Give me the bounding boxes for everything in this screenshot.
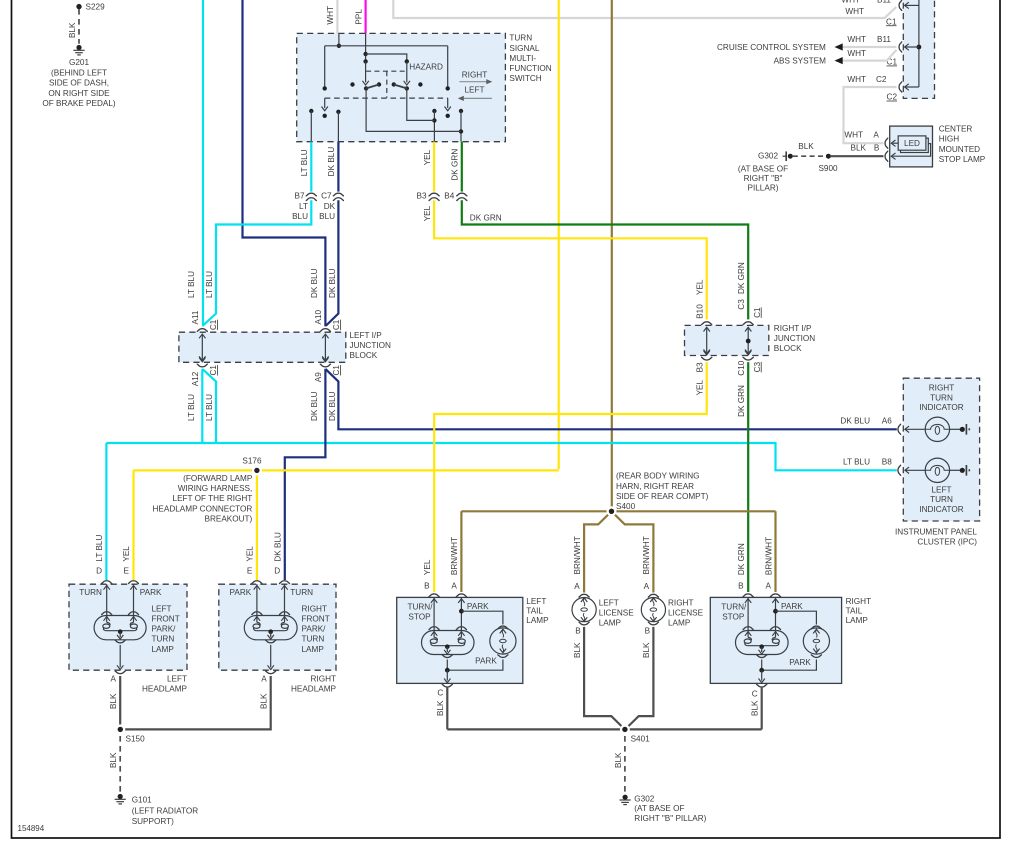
label A BRN/WHT right tail: [764, 537, 773, 590]
svg-text:ABS SYSTEM: ABS SYSTEM: [774, 57, 827, 66]
svg-text:(BEHIND LEFT: (BEHIND LEFT: [51, 68, 107, 77]
svg-text:JUNCTION: JUNCTION: [350, 341, 391, 350]
wire WHT to cruise control system: [843, 46, 897, 48]
svg-text:YEL: YEL: [696, 379, 705, 395]
svg-text:CLUSTER (IPC): CLUSTER (IPC): [917, 538, 977, 547]
left tail lamp box: [397, 597, 523, 683]
svg-text:LAMP: LAMP: [152, 645, 175, 654]
svg-text:LAMP: LAMP: [668, 618, 691, 627]
wire LT BLU down to left front lamp D: [105, 443, 107, 580]
svg-text:RIGHT I/P: RIGHT I/P: [774, 324, 812, 333]
svg-text:RIGHT: RIGHT: [311, 675, 336, 684]
svg-text:B10: B10: [696, 304, 705, 319]
wire PPL into switch: [365, 0, 367, 34]
label HAZARD: [409, 63, 443, 72]
svg-text:TURN/: TURN/: [721, 603, 747, 612]
svg-text:BLK: BLK: [260, 693, 269, 709]
svg-text:LAMP: LAMP: [599, 618, 622, 627]
svg-text:SUPPORT): SUPPORT): [132, 817, 174, 826]
label E YEL right: [246, 546, 255, 576]
instrument panel cluster box: [903, 378, 979, 521]
svg-text:RIGHT: RIGHT: [302, 604, 327, 613]
connector B3: [416, 192, 439, 201]
left I/P junction block (upper right): [903, 0, 934, 98]
svg-text:RIGHT: RIGHT: [929, 384, 954, 393]
wire YEL from top to S176 line: [558, 0, 560, 469]
label D LT BLU: [95, 535, 104, 576]
svg-text:RIGHT "B" PILLAR): RIGHT "B" PILLAR): [634, 814, 706, 823]
svg-text:LT: LT: [299, 202, 308, 211]
label A right headlamp: [261, 675, 267, 684]
svg-text:CENTER: CENTER: [939, 124, 973, 133]
svg-text:B: B: [424, 581, 430, 590]
svg-text:HEADLAMP: HEADLAMP: [291, 685, 337, 694]
svg-text:B8: B8: [882, 457, 892, 466]
wire LT BLU A12 straight to horizontal: [201, 369, 203, 443]
ground G101: [115, 794, 126, 804]
svg-text:A: A: [873, 131, 879, 140]
label BLK: [68, 22, 77, 38]
svg-text:C1: C1: [886, 17, 897, 26]
label DK BLU A6: [840, 416, 892, 425]
note forward lamp wiring harness: [153, 474, 253, 524]
svg-text:G201: G201: [69, 58, 89, 67]
label RIGHT FRONT PARK/TURN LAMP: [302, 604, 330, 653]
svg-text:RIGHT "B": RIGHT "B": [744, 174, 783, 183]
wire BLK S229 to G201 (dashed): [78, 9, 80, 44]
svg-text:C7: C7: [321, 192, 332, 201]
svg-text:STOP LAMP: STOP LAMP: [939, 155, 986, 164]
svg-text:HEADLAMP: HEADLAMP: [142, 685, 188, 694]
switch contacts and blades: [350, 82, 422, 90]
label LT BLU below B7: [292, 202, 308, 221]
svg-text:LEFT: LEFT: [464, 85, 484, 94]
svg-text:BREAKOUT): BREAKOUT): [205, 515, 253, 524]
connector B3 bottom: [696, 351, 713, 396]
label G302 location upper: [738, 152, 788, 193]
svg-text:DK BLU: DK BLU: [328, 391, 337, 421]
svg-text:TURN: TURN: [79, 588, 102, 597]
right front lamp bulb: [244, 584, 297, 673]
label BLK: [436, 700, 445, 716]
svg-text:YEL: YEL: [696, 279, 705, 295]
label WHT: [847, 49, 866, 58]
LED module: [898, 136, 928, 153]
connector C2: [847, 75, 919, 101]
svg-text:B3: B3: [416, 192, 426, 201]
label A left headlamp: [110, 675, 116, 684]
wire LT BLU from top to A11: [202, 0, 204, 326]
svg-text:SWITCH: SWITCH: [509, 74, 541, 83]
svg-text:S400: S400: [616, 502, 636, 511]
splice S150: [115, 724, 145, 743]
wire WHT C2 to stop lamp A: [844, 87, 897, 143]
svg-text:SIGNAL: SIGNAL: [509, 44, 539, 53]
svg-text:C1: C1: [332, 319, 341, 330]
ground G201: [73, 45, 84, 55]
svg-text:B: B: [874, 144, 880, 153]
connector B10 C1: [696, 304, 762, 354]
svg-text:WHT: WHT: [847, 35, 866, 44]
right license lamp: [641, 594, 665, 624]
svg-text:TURN: TURN: [302, 635, 325, 644]
svg-text:PILLAR): PILLAR): [748, 184, 779, 193]
svg-text:DK BLU: DK BLU: [310, 391, 319, 421]
label DK BLU: [327, 147, 336, 177]
wire BLK right front lamp to S150: [120, 676, 271, 729]
connector A9 C1: [314, 358, 341, 383]
svg-text:RIGHT: RIGHT: [462, 71, 487, 80]
svg-text:HAZARD: HAZARD: [409, 63, 443, 72]
svg-text:HEADLAMP CONNECTOR: HEADLAMP CONNECTOR: [153, 504, 253, 513]
wire BRN/WHT from top to S400: [611, 0, 613, 511]
svg-text:TURN/: TURN/: [407, 603, 433, 612]
connector B4: [444, 192, 467, 201]
label DK GRN: [451, 149, 460, 181]
svg-text:DK BLU: DK BLU: [327, 147, 336, 177]
splice S900: [818, 151, 838, 173]
label E YEL: [122, 546, 131, 576]
wire LT BLU A12 jog to horizontal: [202, 369, 216, 443]
svg-text:C2: C2: [876, 75, 887, 84]
wire YEL B3 to right junction block B10: [434, 200, 707, 319]
svg-text:BLK: BLK: [614, 752, 623, 768]
svg-text:LEFT I/P: LEFT I/P: [350, 331, 383, 340]
svg-text:E: E: [247, 566, 253, 575]
svg-text:B4: B4: [444, 192, 454, 201]
svg-text:(LEFT RADIATOR: (LEFT RADIATOR: [132, 807, 199, 816]
wire WHT from top to left I/P junction block C1: [393, 0, 896, 18]
svg-text:BLK: BLK: [798, 142, 814, 151]
wire WHT to ABS system: [843, 50, 897, 61]
label INSTRUMENT PANEL CLUSTER (IPC): [895, 528, 977, 547]
wire YEL S176 to right front lamp E: [256, 470, 258, 580]
svg-text:HIGH: HIGH: [939, 135, 960, 144]
switch internal feed from WHT: [323, 33, 450, 90]
label B YEL left tail: [423, 559, 432, 590]
wire BRN/WHT to left license lamp A: [584, 511, 611, 592]
svg-text:BLK: BLK: [68, 22, 77, 38]
hazard knob linkage (dashed): [366, 71, 405, 98]
svg-text:B: B: [738, 581, 744, 590]
svg-text:154894: 154894: [18, 824, 45, 833]
svg-text:DK GRN: DK GRN: [737, 385, 746, 417]
svg-text:BRN/WHT: BRN/WHT: [642, 536, 651, 574]
svg-text:PARK: PARK: [789, 658, 811, 667]
ground G302 rear: [620, 795, 631, 805]
left license lamp: [572, 594, 596, 624]
label RIGHT HEADLAMP: [291, 675, 337, 694]
svg-text:C1: C1: [209, 365, 218, 376]
svg-text:WIRING HARNESS,: WIRING HARNESS,: [178, 484, 253, 493]
left wiper arrow: [322, 98, 328, 118]
splice S401: [620, 724, 650, 743]
label BLK: [109, 693, 118, 709]
wire YEL switch to connector B3: [433, 142, 435, 192]
label BLK: [642, 642, 651, 658]
svg-text:B3: B3: [696, 362, 705, 372]
svg-text:D: D: [274, 566, 280, 575]
svg-text:RIGHT: RIGHT: [668, 598, 693, 607]
label YEL: [423, 149, 432, 165]
left turn indicator bulb: [898, 458, 969, 482]
label D DK BLU right: [273, 532, 282, 575]
svg-text:A: A: [644, 582, 650, 591]
label cruise control system: [717, 43, 843, 52]
left front lamp bulb: [94, 584, 146, 673]
label BLK: [798, 142, 814, 151]
svg-text:BLK: BLK: [109, 752, 118, 768]
svg-text:MULTI-: MULTI-: [509, 54, 536, 63]
svg-text:LT BLU: LT BLU: [205, 394, 214, 421]
svg-text:S176: S176: [242, 457, 262, 466]
wire YEL S176 horizontal: [134, 469, 559, 471]
label LEFT I/P JUNCTION BLOCK: [350, 331, 391, 360]
splice S229: [74, 2, 105, 12]
wire BLK S900 to stop lamp B: [831, 155, 884, 157]
svg-text:YEL: YEL: [122, 546, 131, 562]
svg-text:SIDE OF DASH,: SIDE OF DASH,: [49, 79, 109, 88]
svg-text:C1: C1: [753, 307, 762, 318]
svg-text:B: B: [575, 627, 581, 636]
terminal arcs left front lamp: [101, 581, 139, 590]
svg-text:DK BLU: DK BLU: [273, 532, 282, 562]
label DK BLU pair above A10: [310, 268, 337, 298]
wire DK BLU A9 straight then left to right front lamp D: [285, 369, 326, 580]
svg-text:A: A: [451, 581, 457, 590]
svg-text:BLK: BLK: [642, 642, 651, 658]
svg-text:JUNCTION: JUNCTION: [774, 334, 815, 343]
label DK BLU below C7: [319, 202, 335, 221]
label RIGHT TURN INDICATOR: [919, 384, 963, 412]
svg-text:LT BLU: LT BLU: [300, 149, 309, 176]
svg-text:A10: A10: [314, 309, 323, 324]
svg-text:C1: C1: [332, 365, 341, 376]
svg-text:LAMP: LAMP: [846, 616, 869, 625]
svg-text:LEFT: LEFT: [152, 604, 172, 613]
svg-text:MOUNTED: MOUNTED: [939, 145, 980, 154]
label DK GRN above C3: [737, 262, 746, 294]
svg-text:FUNCTION: FUNCTION: [509, 64, 551, 73]
svg-text:WHT: WHT: [847, 75, 866, 84]
switch terminal DK GRN: [459, 109, 463, 142]
wire DK GRN switch to connector B4: [461, 142, 463, 192]
svg-text:TAIL: TAIL: [846, 607, 863, 616]
wire DK BLU from top elbow to A10: [243, 0, 326, 326]
wire BLK left front lamp to S150: [119, 676, 121, 729]
svg-text:LICENSE: LICENSE: [668, 608, 704, 617]
svg-text:TURN: TURN: [290, 588, 313, 597]
diagram number 154894: [18, 824, 45, 833]
svg-text:BLK: BLK: [751, 700, 760, 716]
svg-text:D: D: [96, 566, 102, 575]
wire YEL to left front lamp E: [132, 470, 134, 580]
label BLK: [109, 752, 118, 768]
svg-text:LT BLU: LT BLU: [843, 457, 870, 466]
svg-text:BLK: BLK: [109, 693, 118, 709]
label CENTER HIGH MOUNTED STOP LAMP: [939, 124, 986, 164]
svg-text:LEFT: LEFT: [526, 597, 546, 606]
svg-text:CRUISE CONTROL SYSTEM: CRUISE CONTROL SYSTEM: [717, 43, 826, 52]
wire LT BLU B7 to A11: [203, 200, 311, 325]
svg-text:A11: A11: [191, 310, 200, 324]
svg-text:WHT: WHT: [841, 0, 860, 4]
svg-text:G302: G302: [758, 152, 778, 161]
right I/P junction block: [685, 325, 769, 355]
svg-text:BRN/WHT: BRN/WHT: [573, 536, 582, 574]
svg-text:A: A: [261, 675, 267, 684]
svg-text:LT BLU: LT BLU: [95, 535, 104, 562]
svg-text:TURN: TURN: [152, 635, 175, 644]
svg-text:S401: S401: [631, 735, 651, 744]
svg-text:BLK: BLK: [851, 144, 867, 153]
splice S400 note: [616, 472, 709, 512]
connector A12 C1: [191, 358, 218, 387]
svg-text:BLK: BLK: [436, 700, 445, 716]
label BLK: [614, 752, 623, 768]
svg-text:A12: A12: [191, 371, 200, 386]
label RIGHT TAIL LAMP: [846, 597, 871, 625]
wire BLK G302 to S900 (dashed): [793, 155, 825, 157]
svg-text:WHT: WHT: [847, 49, 866, 58]
labels left license lamp: [574, 582, 634, 636]
wire BLK left tail to S401: [446, 687, 448, 730]
svg-text:G302: G302: [634, 795, 654, 804]
svg-text:SIDE OF REAR COMPT): SIDE OF REAR COMPT): [616, 492, 709, 501]
label YEL above B10: [696, 279, 705, 295]
svg-text:PARK/: PARK/: [152, 625, 177, 634]
label C right tail: [752, 690, 758, 699]
splice S400: [607, 506, 617, 516]
label PPL: [354, 9, 363, 25]
switch hazard feed from PPL: [362, 33, 410, 85]
stop lamp terminal B: [851, 144, 931, 162]
label BLK right: [260, 693, 269, 709]
svg-text:PARK: PARK: [230, 588, 252, 597]
label YEL below B3: [423, 205, 432, 221]
label LEFT HEADLAMP: [142, 675, 188, 694]
right blade to YEL terminal: [407, 88, 435, 120]
label A BRN/WHT left tail: [450, 537, 459, 590]
wire LT BLU horizontal to left turn indicator B8: [106, 443, 896, 470]
svg-text:STOP: STOP: [722, 613, 745, 622]
svg-text:BLOCK: BLOCK: [774, 344, 802, 353]
svg-text:YEL: YEL: [423, 149, 432, 165]
svg-text:INDICATOR: INDICATOR: [919, 505, 963, 514]
svg-text:(REAR BODY WIRING: (REAR BODY WIRING: [616, 472, 700, 481]
label LEFT TAIL LAMP: [526, 597, 549, 625]
labels TURN/STOP PARK right tail: [721, 602, 811, 667]
wire LT BLU switch to connector B7: [310, 142, 312, 192]
wire BLK S401 to G302 (dashed): [624, 736, 626, 793]
label LT BLU pair above A11: [187, 271, 214, 298]
svg-text:DK BLU: DK BLU: [840, 416, 870, 425]
left front park/turn lamp box: [69, 584, 187, 670]
svg-text:OF BRAKE PEDAL): OF BRAKE PEDAL): [42, 99, 116, 108]
svg-text:C2: C2: [887, 93, 898, 102]
svg-text:(AT BASE OF: (AT BASE OF: [738, 164, 788, 173]
label LEFT FRONT PARK/TURN LAMP: [152, 604, 180, 653]
svg-text:LT BLU: LT BLU: [205, 271, 214, 298]
right wiper arrow: [445, 98, 451, 118]
svg-text:G101: G101: [132, 795, 152, 804]
svg-text:C: C: [752, 690, 758, 699]
connector C3 top: [737, 299, 754, 354]
svg-text:BLU: BLU: [319, 212, 335, 221]
svg-text:TURN: TURN: [509, 34, 532, 43]
svg-text:YEL: YEL: [423, 205, 432, 221]
label G101 location: [132, 795, 199, 825]
switch terminal DK BLU: [336, 110, 340, 142]
svg-text:A: A: [765, 581, 771, 590]
label G201 location: [42, 58, 116, 108]
left blade to DK GRN terminal: [366, 88, 461, 131]
svg-text:FRONT: FRONT: [302, 615, 330, 624]
label BRN/WHT right license: [642, 536, 651, 574]
svg-text:BLU: BLU: [292, 212, 308, 221]
left tail lamp bulbs: [422, 594, 517, 687]
svg-text:A: A: [574, 582, 580, 591]
svg-text:C1: C1: [209, 319, 218, 330]
svg-text:PARK: PARK: [140, 588, 162, 597]
label G302 location: [634, 795, 706, 824]
wire DK GRN right JB to right tail lamp B: [747, 362, 749, 592]
svg-text:TAIL: TAIL: [526, 607, 543, 616]
wire BLK right tail to S401: [761, 687, 763, 730]
svg-text:YEL: YEL: [423, 559, 432, 575]
svg-text:LEFT OF THE RIGHT: LEFT OF THE RIGHT: [173, 494, 253, 503]
svg-text:LEFT: LEFT: [599, 598, 619, 607]
wire BLK tail lamp bus: [447, 728, 761, 730]
svg-text:FRONT: FRONT: [152, 615, 180, 624]
svg-text:HARN, RIGHT REAR: HARN, RIGHT REAR: [616, 482, 694, 491]
svg-text:LAMP: LAMP: [526, 616, 549, 625]
wire BLK right license to S401: [627, 627, 653, 728]
right tail lamp box: [710, 597, 841, 683]
svg-text:B: B: [645, 627, 651, 636]
label C left tail: [437, 689, 443, 698]
svg-text:LT BLU: LT BLU: [187, 394, 196, 421]
svg-text:LT BLU: LT BLU: [187, 271, 196, 298]
svg-text:B7: B7: [294, 192, 304, 201]
wire WHT into switch: [336, 0, 338, 34]
svg-text:DK GRN: DK GRN: [470, 214, 502, 223]
svg-text:LED: LED: [904, 139, 920, 148]
right tail lamp bulbs: [736, 594, 830, 687]
label DK GRN: [470, 214, 502, 223]
svg-text:STOP: STOP: [408, 613, 431, 622]
wire BRN/WHT to left tail lamp A: [460, 511, 462, 592]
label RIGHT I/P JUNCTION BLOCK: [774, 324, 815, 353]
svg-text:S150: S150: [126, 735, 146, 744]
connector C10 C3 bottom: [737, 351, 762, 417]
wire YEL right JB to left tail lamp B: [434, 362, 707, 592]
labels PARK TURN right front lamp: [230, 588, 314, 597]
svg-text:INSTRUMENT PANEL: INSTRUMENT PANEL: [895, 528, 977, 537]
switch linkage bar (dashed): [325, 97, 448, 99]
svg-text:(FORWARD LAMP: (FORWARD LAMP: [183, 474, 253, 483]
svg-text:WHT: WHT: [844, 131, 863, 140]
svg-text:S229: S229: [86, 3, 106, 12]
labels TURN/STOP PARK left tail: [407, 602, 497, 665]
svg-text:LICENSE: LICENSE: [599, 608, 635, 617]
connector A11 C1: [191, 310, 218, 360]
svg-text:PPL: PPL: [354, 9, 363, 25]
svg-text:PARK: PARK: [781, 602, 803, 611]
label LT BLU pair below A12: [187, 394, 214, 421]
connector A10 C1: [314, 309, 341, 360]
terminal arcs right front lamp: [251, 581, 290, 590]
